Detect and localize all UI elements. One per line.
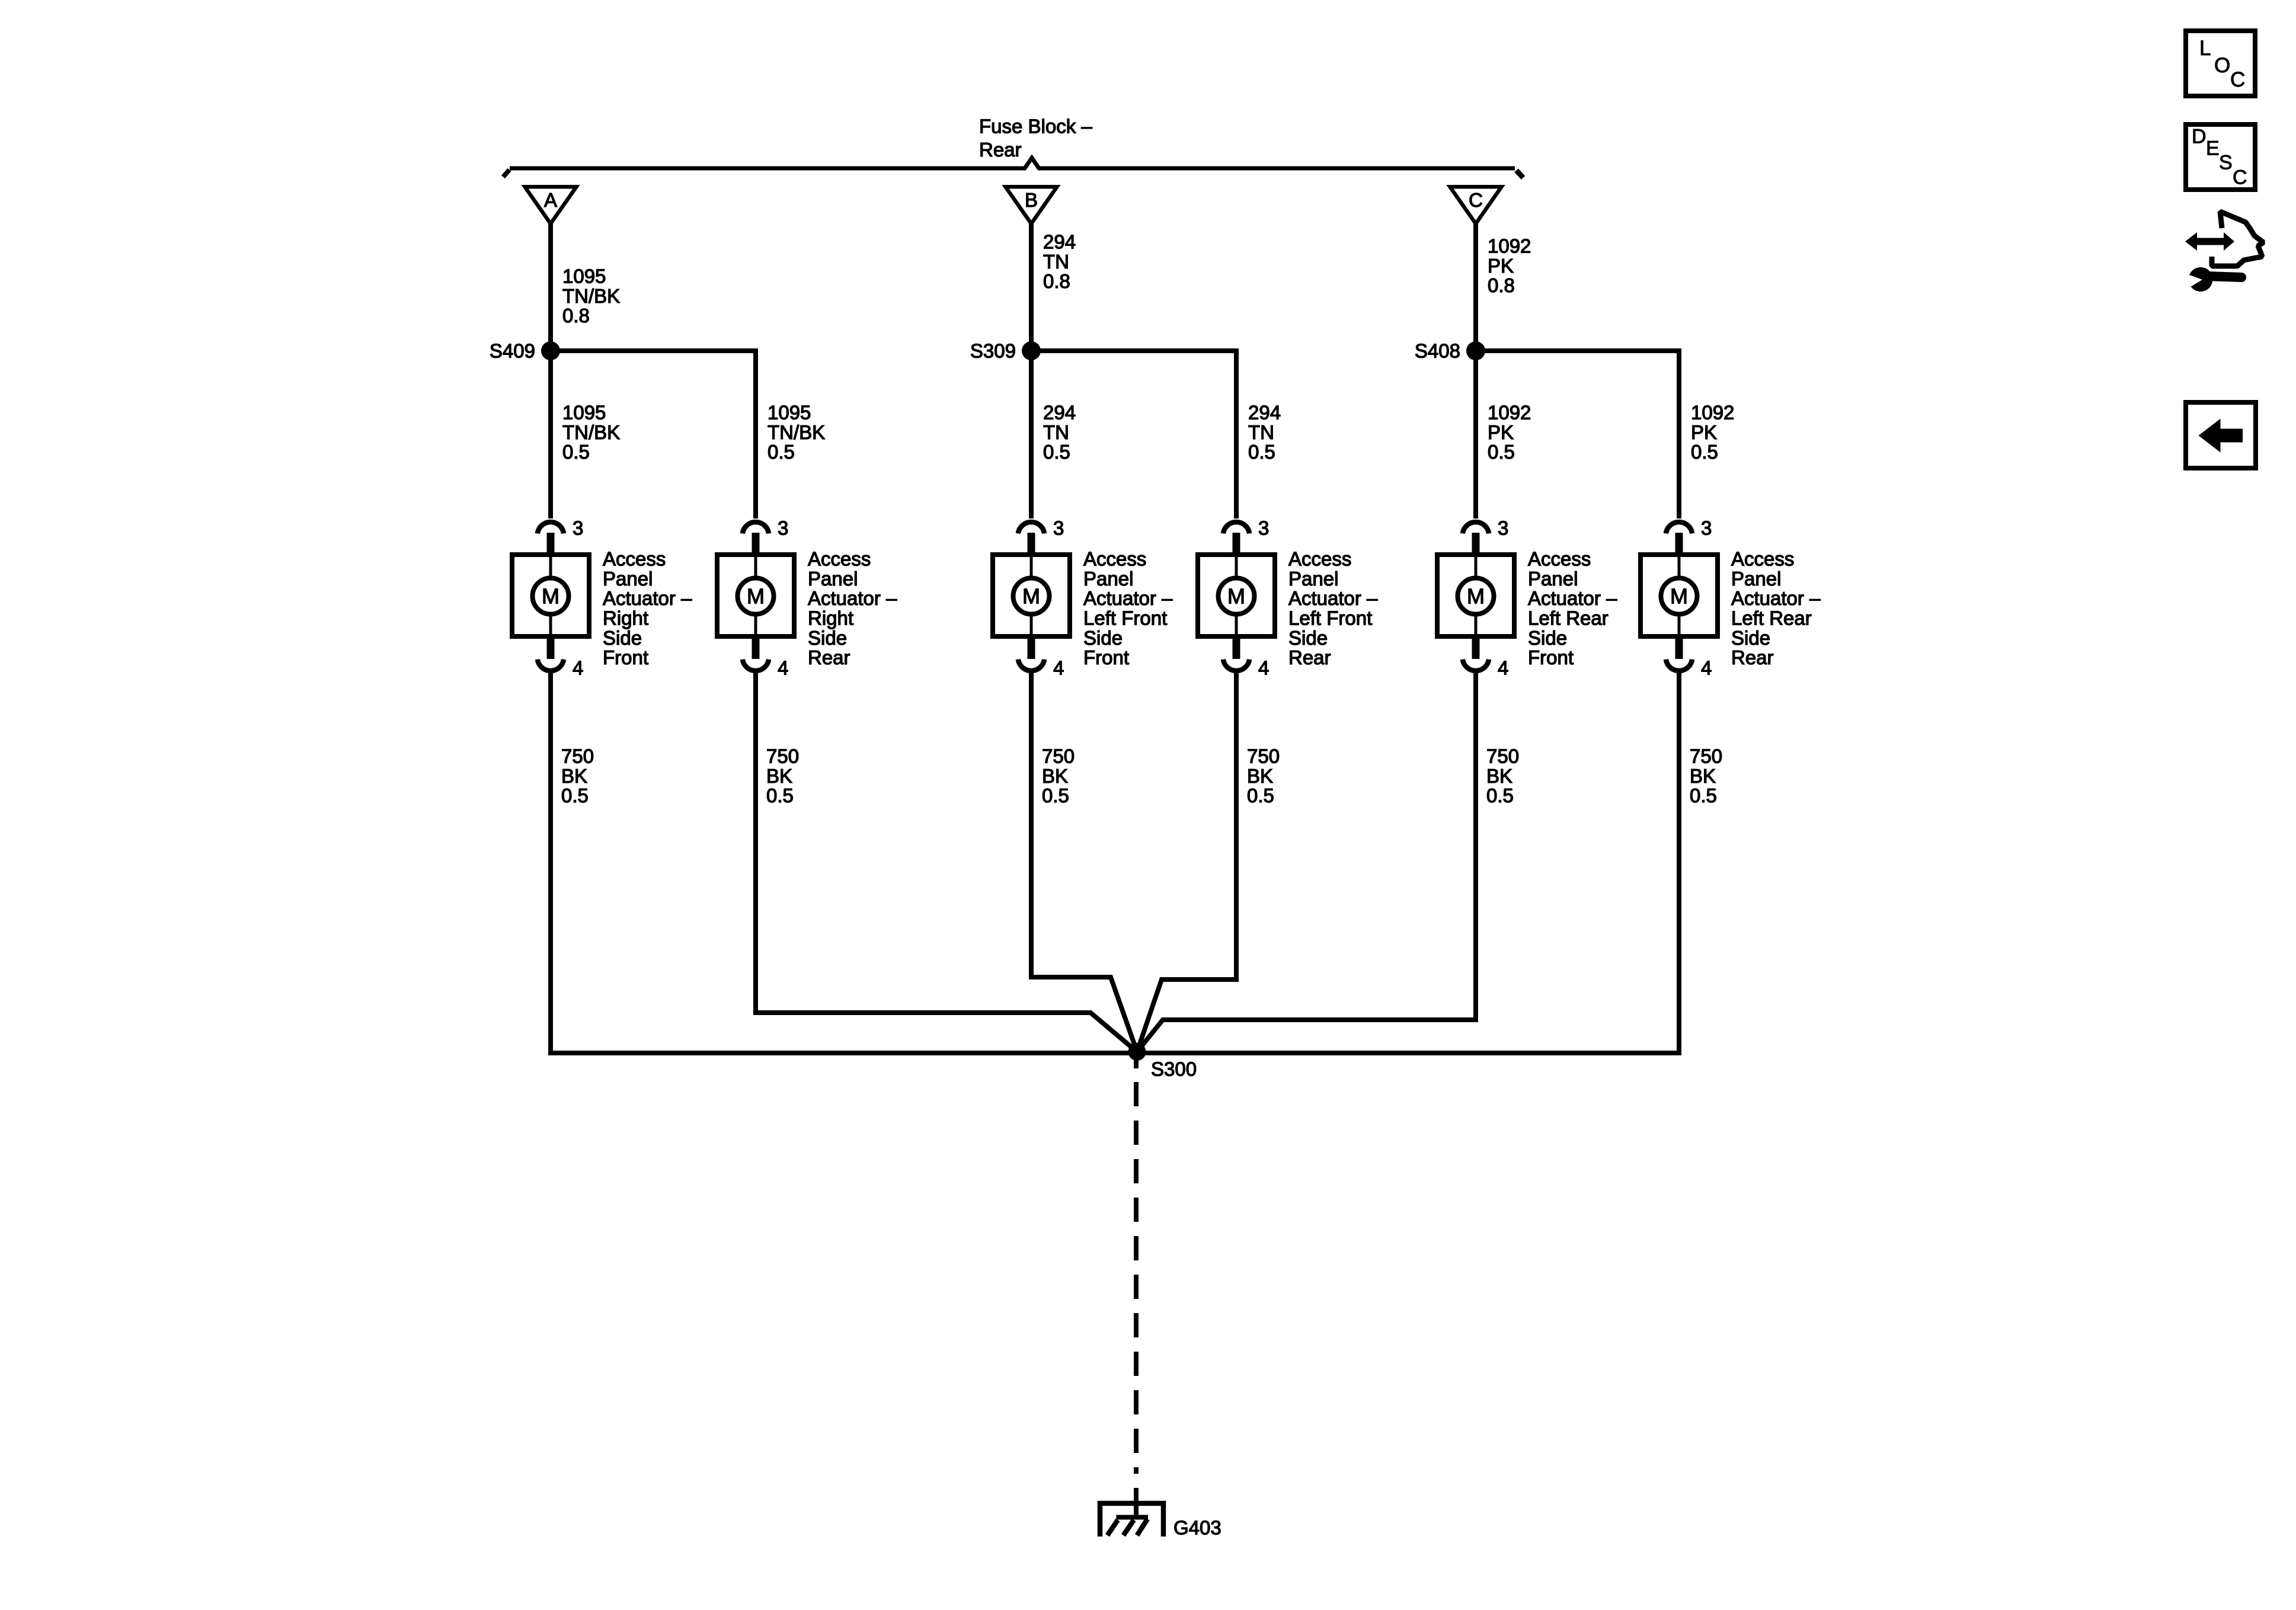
svg-text:C: C <box>1469 189 1483 211</box>
svg-text:294: 294 <box>1043 402 1076 424</box>
svg-text:Rear: Rear <box>979 139 1022 161</box>
svg-text:Actuator –: Actuator – <box>1288 587 1378 609</box>
svg-text:1092: 1092 <box>1488 402 1531 424</box>
svg-text:Rear: Rear <box>1288 646 1331 668</box>
svg-text:3: 3 <box>573 517 583 539</box>
svg-text:E: E <box>2206 137 2220 159</box>
svg-text:TN: TN <box>1248 421 1274 443</box>
svg-text:1095: 1095 <box>562 402 606 424</box>
svg-text:Right: Right <box>808 607 853 629</box>
svg-text:0.5: 0.5 <box>1691 441 1718 463</box>
svg-text:Front: Front <box>603 646 648 668</box>
svg-text:BK: BK <box>1042 765 1068 787</box>
svg-text:BK: BK <box>766 765 792 787</box>
svg-text:Access: Access <box>1288 548 1351 570</box>
svg-text:L: L <box>2199 37 2211 60</box>
svg-text:M: M <box>1467 584 1485 609</box>
svg-text:4: 4 <box>1498 657 1508 679</box>
svg-text:Panel: Panel <box>1528 568 1578 590</box>
svg-text:Rear: Rear <box>1731 646 1774 668</box>
svg-text:0.8: 0.8 <box>562 305 590 327</box>
svg-text:Rear: Rear <box>808 646 850 668</box>
svg-text:Actuator –: Actuator – <box>808 587 897 609</box>
svg-text:Left Front: Left Front <box>1288 607 1372 629</box>
svg-text:Right: Right <box>603 607 648 629</box>
svg-text:Side: Side <box>1528 627 1567 649</box>
svg-text:PK: PK <box>1488 255 1514 277</box>
svg-text:294: 294 <box>1043 231 1076 253</box>
svg-text:Access: Access <box>1528 548 1591 570</box>
svg-text:BK: BK <box>1486 765 1512 787</box>
svg-text:S: S <box>2219 151 2233 174</box>
svg-text:BK: BK <box>1247 765 1273 787</box>
svg-text:0.8: 0.8 <box>1043 270 1070 292</box>
svg-text:Left Rear: Left Rear <box>1731 607 1812 629</box>
svg-text:S300: S300 <box>1151 1058 1197 1080</box>
svg-text:G403: G403 <box>1173 1517 1221 1539</box>
svg-text:TN/BK: TN/BK <box>562 421 620 443</box>
svg-text:3: 3 <box>1053 517 1064 539</box>
svg-text:4: 4 <box>573 657 583 679</box>
svg-text:4: 4 <box>1258 657 1269 679</box>
svg-text:4: 4 <box>1701 657 1712 679</box>
svg-text:Front: Front <box>1083 646 1129 668</box>
svg-text:O: O <box>2214 54 2230 77</box>
svg-text:0.5: 0.5 <box>1486 785 1514 806</box>
svg-text:Access: Access <box>1731 548 1794 570</box>
svg-text:0.5: 0.5 <box>561 785 589 806</box>
svg-text:4: 4 <box>778 657 788 679</box>
svg-text:M: M <box>542 584 559 609</box>
svg-text:750: 750 <box>1486 745 1519 767</box>
svg-text:0.5: 0.5 <box>562 441 590 463</box>
svg-text:3: 3 <box>1701 517 1712 539</box>
svg-text:TN/BK: TN/BK <box>768 421 825 443</box>
svg-text:S408: S408 <box>1415 340 1460 362</box>
svg-text:Front: Front <box>1528 646 1574 668</box>
svg-text:1092: 1092 <box>1488 235 1531 257</box>
svg-text:0.5: 0.5 <box>1488 441 1515 463</box>
svg-text:Panel: Panel <box>1731 568 1781 590</box>
svg-text:3: 3 <box>1498 517 1508 539</box>
svg-text:M: M <box>1022 584 1040 609</box>
svg-text:TN/BK: TN/BK <box>562 285 620 307</box>
svg-text:0.5: 0.5 <box>766 785 794 806</box>
svg-text:294: 294 <box>1248 402 1281 424</box>
svg-text:Panel: Panel <box>808 568 858 590</box>
svg-text:0.5: 0.5 <box>1043 441 1070 463</box>
svg-text:Panel: Panel <box>603 568 653 590</box>
svg-text:Access: Access <box>1083 548 1146 570</box>
svg-text:0.5: 0.5 <box>1248 441 1275 463</box>
svg-text:TN: TN <box>1043 251 1069 273</box>
svg-text:C: C <box>2233 166 2247 188</box>
svg-text:TN: TN <box>1043 421 1069 443</box>
svg-text:BK: BK <box>561 765 587 787</box>
svg-text:PK: PK <box>1691 421 1717 443</box>
svg-text:M: M <box>1670 584 1688 609</box>
svg-text:Panel: Panel <box>1288 568 1338 590</box>
svg-text:Actuator –: Actuator – <box>603 587 692 609</box>
svg-text:0.5: 0.5 <box>1247 785 1274 806</box>
svg-text:PK: PK <box>1488 421 1514 443</box>
svg-text:1095: 1095 <box>768 402 811 424</box>
svg-text:Fuse Block –: Fuse Block – <box>979 116 1092 137</box>
svg-text:4: 4 <box>1053 657 1064 679</box>
svg-text:Side: Side <box>1083 627 1123 649</box>
svg-text:3: 3 <box>778 517 788 539</box>
svg-text:1095: 1095 <box>562 265 606 287</box>
svg-text:B: B <box>1025 189 1038 211</box>
svg-text:3: 3 <box>1258 517 1269 539</box>
svg-text:Actuator –: Actuator – <box>1731 587 1821 609</box>
svg-text:Access: Access <box>808 548 871 570</box>
svg-text:0.5: 0.5 <box>1042 785 1069 806</box>
svg-text:750: 750 <box>561 745 594 767</box>
svg-text:0.5: 0.5 <box>1690 785 1717 806</box>
svg-text:750: 750 <box>1247 745 1280 767</box>
svg-text:Actuator –: Actuator – <box>1528 587 1617 609</box>
svg-text:750: 750 <box>1042 745 1075 767</box>
svg-text:1092: 1092 <box>1691 402 1734 424</box>
svg-text:M: M <box>747 584 765 609</box>
svg-text:Left Front: Left Front <box>1083 607 1167 629</box>
svg-text:750: 750 <box>766 745 799 767</box>
svg-text:Side: Side <box>1731 627 1770 649</box>
svg-text:Access: Access <box>603 548 666 570</box>
svg-text:0.5: 0.5 <box>768 441 795 463</box>
svg-text:D: D <box>2192 125 2207 148</box>
svg-text:Side: Side <box>808 627 847 649</box>
svg-text:C: C <box>2230 68 2245 91</box>
svg-text:Actuator –: Actuator – <box>1083 587 1173 609</box>
svg-text:750: 750 <box>1690 745 1722 767</box>
svg-text:Side: Side <box>603 627 642 649</box>
svg-text:BK: BK <box>1690 765 1716 787</box>
svg-text:Panel: Panel <box>1083 568 1133 590</box>
svg-text:S409: S409 <box>490 340 535 362</box>
svg-text:S309: S309 <box>970 340 1016 362</box>
svg-text:Left Rear: Left Rear <box>1528 607 1609 629</box>
svg-text:A: A <box>544 189 557 211</box>
svg-text:0.8: 0.8 <box>1488 274 1515 296</box>
svg-text:Side: Side <box>1288 627 1328 649</box>
svg-text:M: M <box>1227 584 1245 609</box>
